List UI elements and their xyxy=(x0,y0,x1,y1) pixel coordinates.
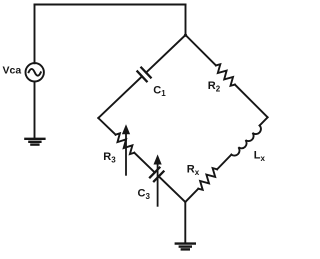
resistor R3 xyxy=(116,133,135,154)
wire left vertical lower xyxy=(34,82,36,139)
inductor Lx xyxy=(231,126,261,156)
ground (left) xyxy=(25,139,44,145)
svg-text:C3: C3 xyxy=(138,188,151,202)
svg-text:C1: C1 xyxy=(153,84,166,98)
wire Rx to bottom vertex xyxy=(185,189,198,202)
ground (bottom) xyxy=(176,244,195,250)
wire R2 arm upper xyxy=(186,35,216,65)
wire top horizontal xyxy=(35,4,186,6)
node top junction xyxy=(184,34,187,37)
resistor R2 xyxy=(216,64,235,86)
capacitor C1 xyxy=(137,68,150,82)
wire left vertical upper xyxy=(34,5,36,64)
AC source sine wave xyxy=(29,69,41,76)
AC source Vca circle xyxy=(26,63,44,81)
wire top vertex drop xyxy=(185,5,187,36)
wire C1 arm upper xyxy=(146,35,186,73)
wire R3 to C3 xyxy=(134,153,155,173)
resistor Rx xyxy=(198,168,217,190)
arrow through R3 (variable) xyxy=(125,134,127,175)
wire RV to coil xyxy=(260,117,268,125)
svg-text:Vca: Vca xyxy=(3,65,22,77)
capacitor C3 xyxy=(150,168,164,182)
svg-text:R2: R2 xyxy=(208,80,221,94)
wire coil to Rx xyxy=(217,155,231,170)
svg-text:Rx: Rx xyxy=(187,164,200,177)
wire C1 arm lower xyxy=(98,76,142,118)
wire C3 arm lower xyxy=(159,176,186,202)
arrow through C3 (variable) xyxy=(157,164,159,206)
wire R2 arm lower xyxy=(235,85,268,118)
svg-text:Lx: Lx xyxy=(254,150,266,163)
svg-text:R3: R3 xyxy=(103,151,116,165)
wire R3 arm upper xyxy=(98,118,115,135)
wire bottom vertex to ground xyxy=(184,202,186,243)
